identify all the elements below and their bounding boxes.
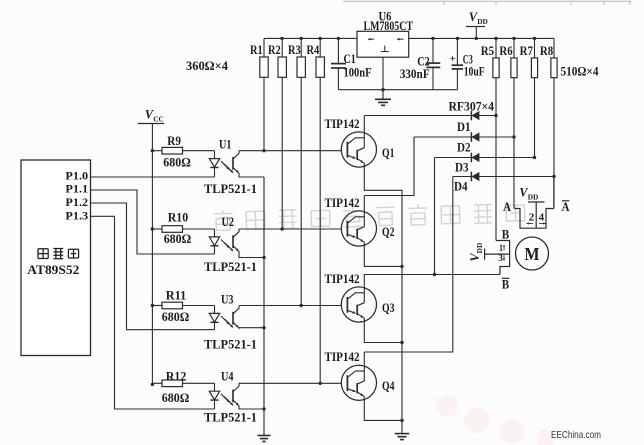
svg-text:U2: U2	[222, 215, 235, 229]
svg-text:TIP142: TIP142	[325, 196, 360, 210]
svg-text:Q4: Q4	[382, 379, 395, 393]
svg-text:TLP521-1: TLP521-1	[204, 411, 257, 425]
wire Q2 emitter	[364, 246, 402, 266]
wire Q2 collector stub	[363, 196, 365, 211]
resistor R1	[263, 38, 265, 57]
svg-text:CC: CC	[153, 114, 164, 123]
wire P1.0 to U1	[91, 176, 215, 178]
svg-text:R6: R6	[499, 44, 512, 58]
transistor Q3 TIP142	[341, 287, 376, 322]
wire P1.3 to U4	[91, 216, 215, 409]
resistor R3	[300, 38, 302, 57]
top cropped border line	[343, 0, 631, 2]
svg-text:Q2: Q2	[382, 225, 395, 239]
wire Q4 emitter	[364, 400, 402, 420]
svg-text:P1.0: P1.0	[65, 171, 88, 183]
svg-text:Q1: Q1	[382, 146, 395, 160]
ground opto trunk	[258, 435, 271, 437]
svg-text:R10: R10	[168, 211, 189, 225]
svg-text:R7: R7	[520, 44, 533, 58]
svg-text:TIP142: TIP142	[325, 350, 360, 364]
resistor R8	[553, 38, 555, 58]
capacitor C3	[456, 38, 458, 64]
label controller (CJK)	[38, 249, 48, 259]
wire Q3 emitter	[364, 322, 402, 342]
svg-text:TIP142: TIP142	[325, 272, 360, 286]
svg-text:A: A	[503, 200, 511, 214]
svg-text:330nF: 330nF	[400, 67, 430, 81]
power VDD winding B	[484, 249, 486, 260]
svg-text:R1: R1	[250, 43, 263, 57]
svg-text:RF307×4: RF307×4	[449, 100, 495, 114]
resistor R11	[152, 305, 162, 307]
svg-text:2: 2	[529, 213, 535, 224]
svg-text:680Ω: 680Ω	[162, 391, 190, 405]
svg-text:R4: R4	[307, 43, 320, 57]
svg-text:U3: U3	[221, 293, 234, 307]
wire cap ground return	[338, 89, 457, 91]
opto U4 TLP521-1	[214, 383, 216, 391]
wire D4 row to Q4 collector	[364, 177, 453, 353]
wire opto emitter trunk	[263, 177, 265, 436]
svg-text:M: M	[525, 244, 540, 264]
diode D3	[435, 157, 535, 159]
wire R7 lead to D3 row	[534, 78, 536, 158]
svg-text:4: 4	[539, 213, 545, 224]
svg-text:Q3: Q3	[382, 301, 395, 315]
svg-text:D4: D4	[454, 180, 468, 194]
wire R5 lead to node B	[495, 78, 497, 241]
capacitor C1	[337, 38, 339, 63]
opto U2 TLP521-1	[214, 229, 216, 237]
diode D2	[414, 136, 514, 138]
svg-text:P1.3: P1.3	[65, 210, 88, 222]
diode D4	[453, 176, 554, 178]
wire R6 lead to node A	[513, 78, 515, 209]
wire top supply bus	[264, 37, 357, 39]
svg-text:R12: R12	[166, 369, 187, 383]
svg-text:1: 1	[499, 244, 503, 254]
resistor R10	[152, 228, 162, 230]
op-amp U6 regulator LM7805CT	[357, 31, 409, 57]
svg-text:R8: R8	[540, 44, 553, 58]
svg-text:R2: R2	[268, 43, 281, 57]
svg-text:LM7805CT: LM7805CT	[364, 19, 414, 33]
wire P1.1 to U2	[91, 190, 215, 254]
controller U5 AT89S52 box	[21, 160, 91, 356]
svg-text:U4: U4	[221, 370, 234, 384]
motor M	[516, 237, 549, 270]
wire Q3 collector to Bbar row	[364, 275, 434, 287]
svg-text:680Ω: 680Ω	[163, 156, 191, 170]
resistor R7	[534, 38, 536, 58]
power VDD top	[475, 27, 477, 39]
svg-text:P1.1: P1.1	[65, 184, 88, 196]
svg-text:B: B	[502, 278, 510, 292]
svg-text:D3: D3	[455, 161, 469, 175]
svg-text:AT89S52: AT89S52	[27, 263, 79, 277]
svg-text:C1: C1	[344, 52, 356, 66]
winding A-Abar (upper)	[515, 209, 554, 229]
svg-text:R5: R5	[481, 44, 494, 58]
svg-text:P1.2: P1.2	[65, 197, 88, 209]
wire R8 lead to node Abar	[553, 78, 555, 209]
wire D3 row riser	[434, 158, 436, 275]
resistor R12	[152, 382, 162, 384]
resistor R4	[319, 38, 321, 57]
svg-text:R3: R3	[288, 43, 301, 57]
svg-text:EEChina.com: EEChina.com	[551, 429, 601, 441]
transistor Q2 TIP142	[341, 211, 376, 246]
svg-text:680Ω: 680Ω	[164, 232, 192, 246]
wire D2 row to Q2 collector	[364, 137, 414, 196]
wire Q emitter trunk to ground	[364, 167, 402, 433]
resistor R6	[513, 38, 515, 58]
wire node Bbar row	[435, 274, 501, 276]
svg-text:R11: R11	[166, 288, 187, 302]
svg-text:TLP521-1: TLP521-1	[204, 337, 257, 351]
capacitor C2	[432, 38, 434, 62]
svg-text:10uF: 10uF	[464, 65, 485, 79]
svg-text:R9: R9	[167, 134, 181, 148]
ground U6	[382, 57, 384, 99]
ground main	[395, 433, 410, 435]
svg-text:DD: DD	[528, 192, 539, 201]
transistor Q4 TIP142	[341, 365, 376, 400]
svg-text:A: A	[562, 200, 570, 214]
resistor R9	[152, 150, 162, 152]
svg-text:D2: D2	[457, 141, 471, 155]
wire P1.2 to U3	[91, 203, 215, 330]
svg-text:U1: U1	[219, 137, 232, 151]
svg-text:680Ω: 680Ω	[162, 310, 190, 324]
svg-text:100nF: 100nF	[344, 66, 372, 80]
resistor R2	[281, 38, 283, 57]
svg-text:+: +	[450, 53, 456, 65]
opto U1 TLP521-1	[214, 151, 216, 159]
svg-text:360Ω×4: 360Ω×4	[186, 59, 229, 73]
watermark	[213, 202, 525, 231]
svg-text:D1: D1	[457, 120, 471, 134]
svg-text:TIP142: TIP142	[325, 117, 360, 131]
diode D1	[364, 115, 496, 117]
svg-text:B: B	[502, 227, 510, 241]
svg-text:510Ω×4: 510Ω×4	[561, 65, 600, 79]
svg-text:DD: DD	[475, 243, 484, 254]
wire Q1 collector to D1 row	[363, 116, 365, 132]
opto U3 TLP521-1	[214, 306, 216, 314]
svg-text:DD: DD	[477, 17, 488, 26]
transistor Q1 TIP142	[341, 132, 376, 167]
resistor R5	[495, 38, 497, 58]
svg-text:TLP521-1: TLP521-1	[204, 182, 257, 196]
winding B-Bbar (lower)	[496, 241, 510, 275]
svg-text:3: 3	[498, 254, 503, 264]
wire Q4 collector stub	[363, 352, 365, 365]
svg-text:TLP521-1: TLP521-1	[204, 260, 257, 274]
